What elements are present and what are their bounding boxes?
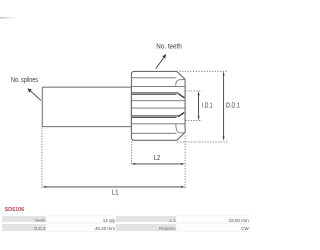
- extension dashed vertical gear left: [130, 142, 132, 166]
- extension dashed line ID1 lower: [185, 119, 202, 121]
- svg-text:O.D.1: O.D.1: [226, 103, 240, 110]
- gear body outline: [131, 71, 185, 140]
- gear tooth line 4: [132, 107, 186, 109]
- leader arrow No. teeth: [156, 57, 165, 69]
- gear tooth line 5: [132, 123, 186, 125]
- table row 1 value 19.00 mm: [177, 216, 249, 223]
- gear tooth band upper: [132, 93, 178, 95]
- table row 2 label Rotation: [116, 224, 176, 231]
- table row 1 label L.1: [116, 216, 176, 223]
- extension dashed line ID1 upper: [185, 90, 202, 92]
- svg-text:L1: L1: [112, 188, 119, 197]
- svg-text:No. teeth: No. teeth: [156, 43, 182, 50]
- dimension L2: [134, 163, 184, 165]
- extension dashed vertical shaft left: [41, 128, 43, 189]
- table row 2 value 46.20 mm: [46, 224, 115, 231]
- gear tooth end arc bottom-right: [176, 124, 185, 133]
- table row 2 value CW: [177, 224, 249, 231]
- table row 2 label O.D.2: [2, 224, 46, 231]
- dimension OD1: [223, 74, 225, 139]
- dimension L1: [45, 186, 184, 188]
- svg-text:L2: L2: [154, 153, 161, 162]
- table row 1 label Teeth: [2, 216, 46, 223]
- gear tooth line 3: [132, 100, 186, 102]
- shaft body: [42, 87, 131, 126]
- gear tooth line 1: [132, 77, 176, 79]
- leader arrow No. splines: [30, 91, 41, 101]
- gear tooth end arc top-right: [176, 80, 185, 87]
- gear tooth line 2: [132, 85, 186, 87]
- extension dashed line top (OD1 upper): [180, 70, 228, 72]
- gear tooth band lower: [132, 116, 178, 118]
- svg-text:I.D.1: I.D.1: [202, 103, 213, 110]
- extension dashed line bottom (OD1 lower): [178, 141, 228, 143]
- faint artifact streak top-left: [0, 17, 16, 19]
- svg-text:No. splines: No. splines: [11, 77, 38, 84]
- dimension ID1: [198, 94, 200, 119]
- part code SD5106: [5, 207, 25, 213]
- gear tooth line 6: [132, 132, 177, 134]
- extension dashed vertical gear right: [184, 136, 186, 189]
- table row 1 value 12 qty: [46, 216, 115, 223]
